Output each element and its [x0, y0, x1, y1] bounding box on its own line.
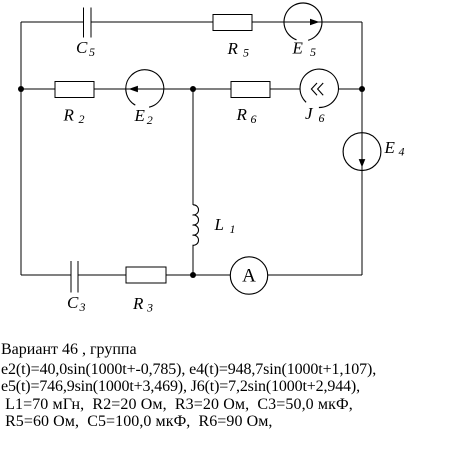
svg-text:3: 3: [146, 301, 153, 315]
svg-text:3: 3: [79, 300, 86, 314]
source E2 (circle with gap at bottom): [126, 70, 164, 108]
svg-text:6: 6: [251, 112, 257, 126]
E5 arrow: [310, 19, 320, 25]
svg-text:R: R: [236, 105, 248, 124]
svg-text:5: 5: [89, 45, 95, 59]
E4 arrow: [359, 159, 366, 167]
J6 chevrons: [311, 83, 323, 95]
label R3: [132, 294, 153, 315]
node junction left row2: [18, 86, 24, 92]
svg-text:C: C: [76, 38, 88, 57]
svg-text:2: 2: [79, 112, 85, 126]
svg-text:E: E: [292, 39, 304, 58]
label E4: [384, 138, 405, 159]
label R2: [63, 105, 85, 126]
wire R6 to J6: [270, 88, 300, 90]
wire R5 through E5 to top-right corner: [252, 21, 362, 23]
svg-text:J: J: [305, 104, 314, 123]
svg-text:R: R: [227, 39, 239, 58]
wire row2 left: [21, 88, 55, 90]
wire R3 to ammeter: [166, 274, 230, 276]
label C5: [76, 38, 95, 59]
label E5: [292, 39, 317, 60]
svg-text:E: E: [384, 138, 396, 157]
wire C5 to R5: [91, 21, 213, 23]
resistor R2: [55, 82, 94, 98]
label J6: [305, 104, 325, 125]
svg-text:4: 4: [399, 145, 405, 159]
E2 arrow: [129, 86, 138, 92]
wire left side: [20, 22, 22, 275]
wire J6 to right junction: [338, 88, 362, 90]
problem text block: [1, 341, 376, 431]
label R5: [227, 39, 250, 60]
label R6: [236, 105, 257, 126]
source E5 (circle with gap at bottom): [284, 3, 322, 40]
svg-text:L: L: [214, 215, 224, 234]
svg-text:E: E: [134, 106, 146, 125]
wire right side through E4: [361, 22, 363, 275]
wire C3 to R3: [78, 274, 126, 276]
wire middle vertical lower: [192, 245, 194, 275]
svg-text:R: R: [132, 294, 144, 313]
node junction bottom: [190, 272, 196, 278]
svg-text:6: 6: [319, 111, 325, 125]
resistor R5: [213, 15, 252, 31]
label L1: [214, 215, 236, 236]
wire R2 through E2 to R6: [94, 88, 231, 90]
wire bottom-left to C3: [21, 274, 71, 276]
source E4 circle: [343, 133, 381, 171]
svg-text:5: 5: [243, 46, 249, 60]
wire ammeter to bottom-right: [268, 274, 362, 276]
label E2: [134, 106, 153, 127]
resistor R6: [231, 82, 270, 98]
node junction middle row2: [190, 86, 196, 92]
svg-text:A: A: [242, 266, 256, 287]
node junction right row2: [359, 86, 365, 92]
svg-text:1: 1: [230, 222, 236, 236]
svg-text:2: 2: [147, 113, 153, 127]
capacitor C5: [84, 7, 92, 37]
svg-text:R: R: [63, 105, 75, 124]
label C3: [67, 293, 86, 314]
inductor L1: [193, 205, 199, 246]
wire middle vertical upper: [192, 89, 194, 205]
capacitor C3: [71, 261, 78, 292]
svg-text:C: C: [67, 293, 79, 312]
ammeter A1 circle: [230, 257, 267, 294]
wire top-left to C5: [21, 21, 84, 23]
svg-text:5: 5: [310, 45, 316, 59]
resistor R3: [126, 267, 166, 283]
current source J6 (circle with gap at bottom): [300, 69, 338, 107]
